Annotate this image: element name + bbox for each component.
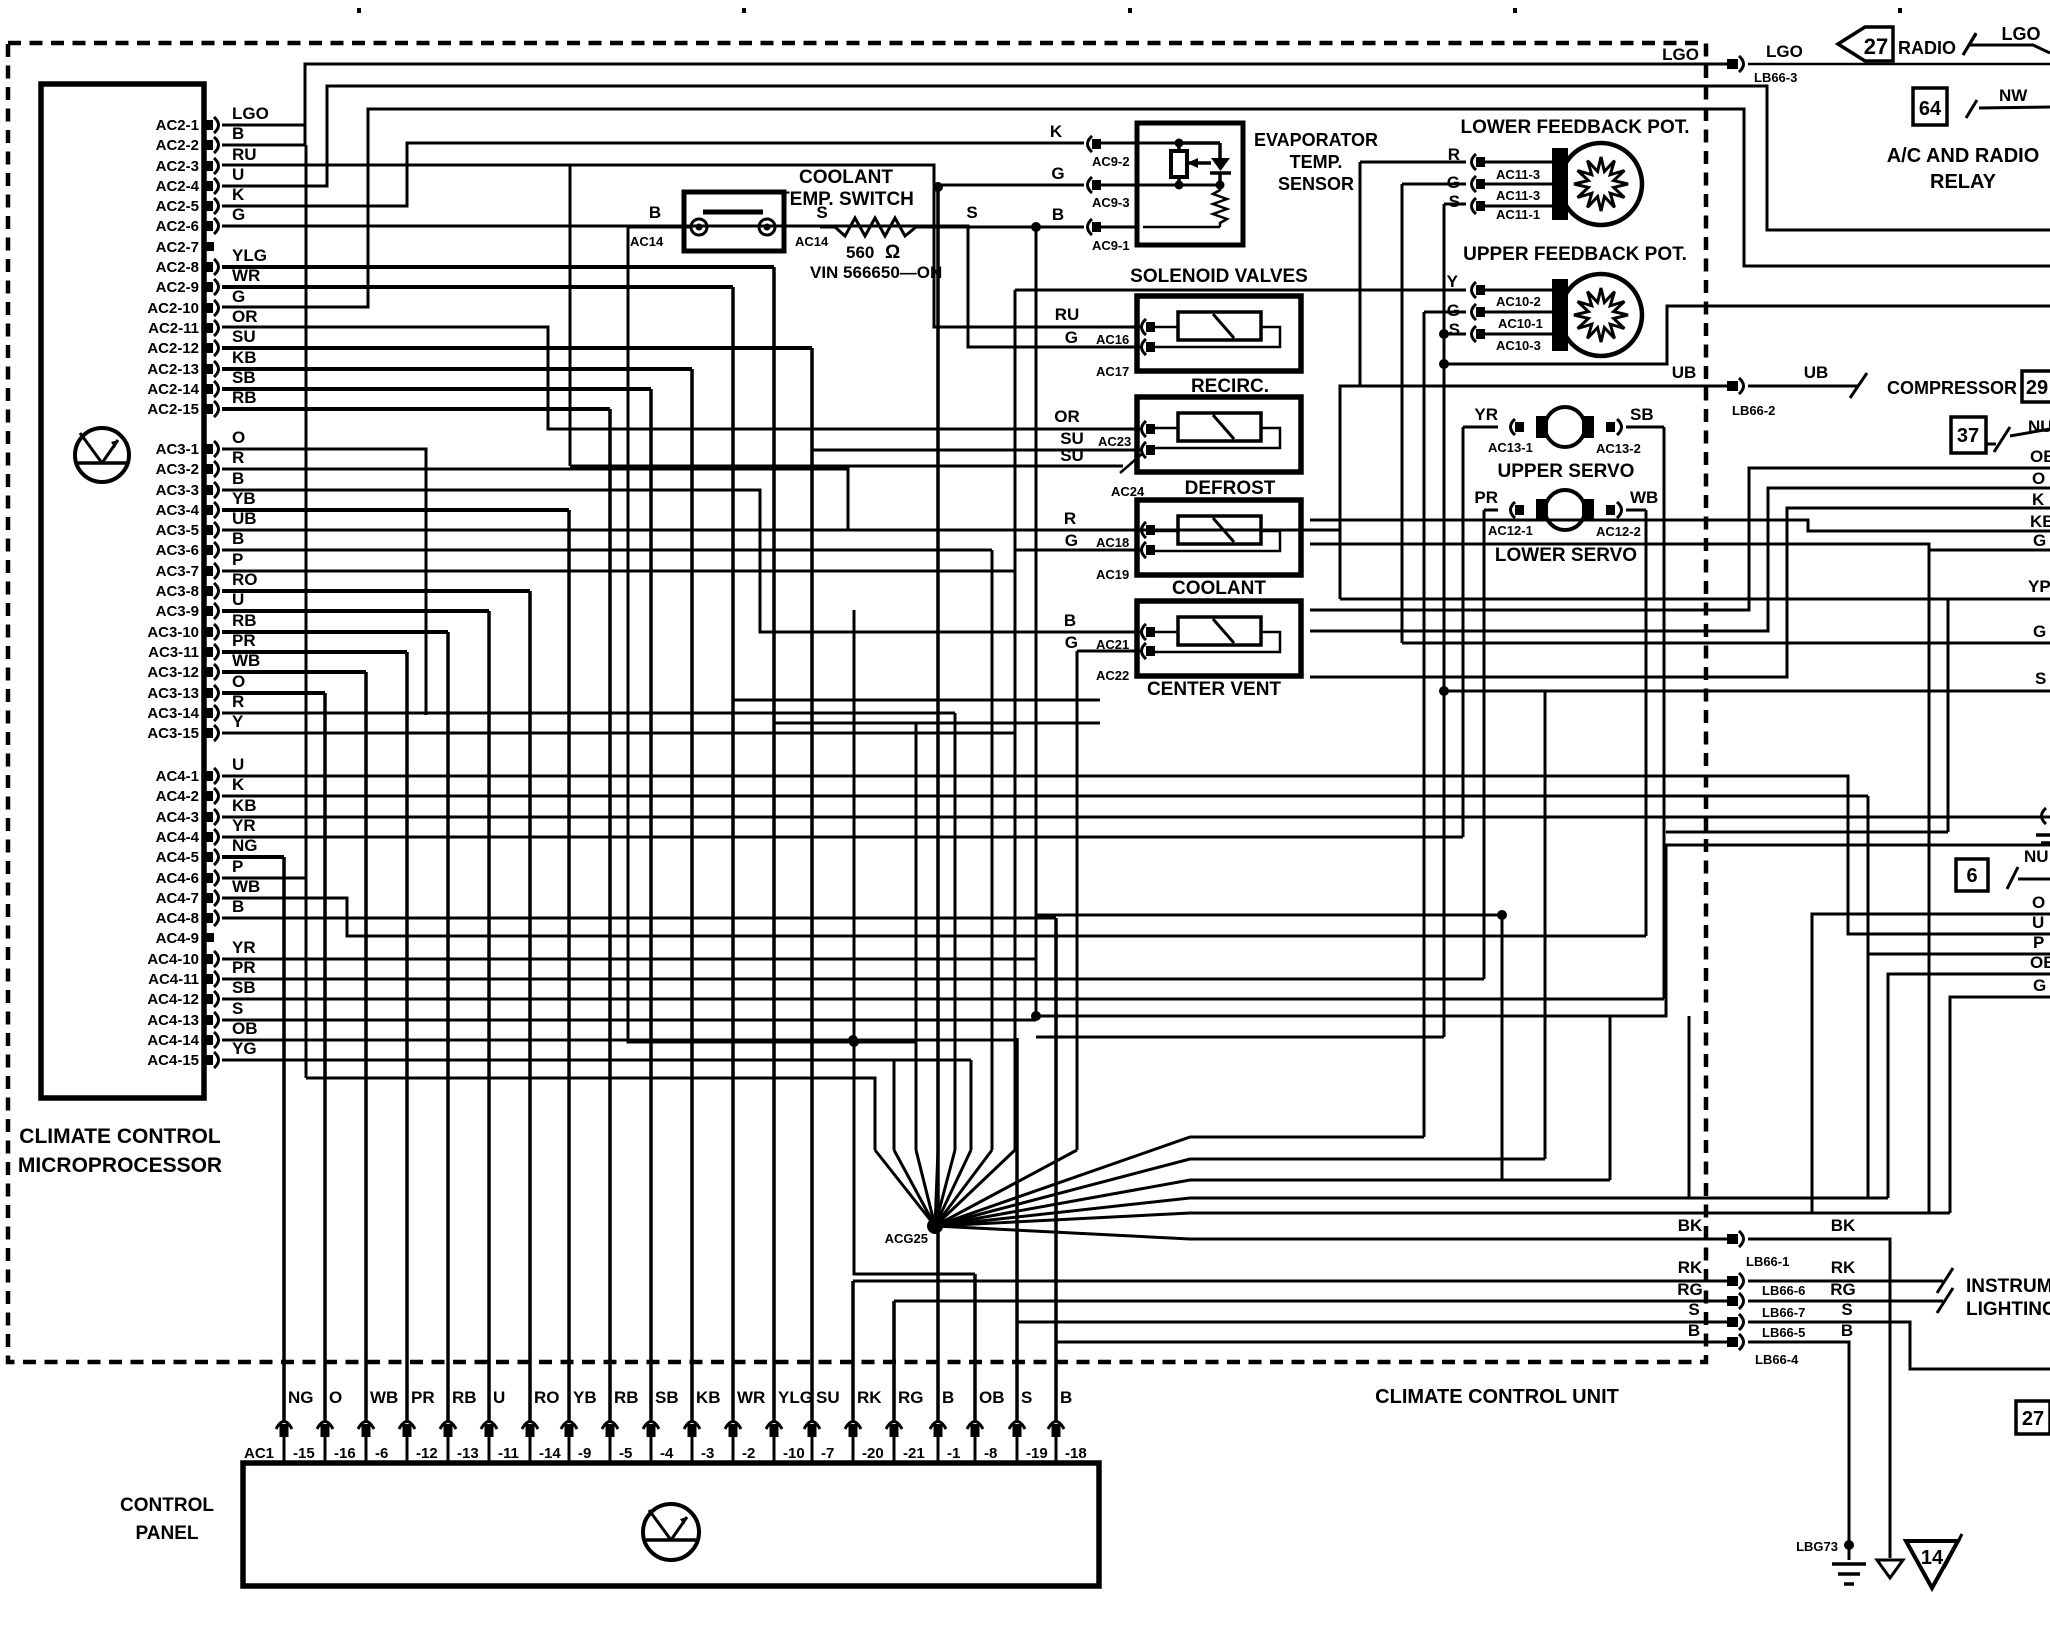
svg-text:SB: SB [1630,405,1654,424]
wire pin to column PR [222,650,407,654]
slash RADIO [1963,33,1976,55]
wire B AC3-6 to ground node [222,549,992,552]
wire fan up to 992 [935,1150,992,1226]
pin AC3-9 U [205,603,219,619]
svg-text:AC14: AC14 [795,234,829,249]
node ACG25 [927,1218,943,1234]
svg-text:-3: -3 [701,1445,714,1462]
svg-text:G: G [1065,328,1078,347]
wire lane to OB edge [1310,468,2050,610]
svg-text:YB: YB [573,1388,597,1407]
svg-text:CLIMATE CONTROL UNIT: CLIMATE CONTROL UNIT [1375,1386,1619,1408]
wire pot S to right edge [1444,306,2050,364]
svg-text:S: S [1021,1388,1032,1407]
box 37 [1951,417,1986,453]
wire lane G edge 643 [1402,642,2050,645]
svg-text:SU: SU [232,327,256,346]
wire RU AC2-3 to AC16 [222,165,1140,327]
svg-text:AC3-2: AC3-2 [156,461,199,478]
panel connector AC1-19 [1009,1422,1025,1438]
svg-text:COOLANT: COOLANT [799,167,893,188]
svg-text:R: R [1064,509,1076,528]
panel connector AC1-7 [804,1422,820,1438]
wire fan up to 938 [935,1150,938,1226]
ground bars right edge [2036,833,2050,837]
svg-text:AC3-15: AC3-15 [147,725,199,742]
wire lane YP edge [1340,598,2050,601]
svg-text:AC11-3: AC11-3 [1496,167,1540,182]
wire fan right lane 1198 [935,1198,1888,1226]
connector AC12-1 PR [1511,502,1525,518]
svg-text:AC3-6: AC3-6 [156,542,199,559]
svg-text:YLG: YLG [778,1388,813,1407]
slash 37 [1994,427,2010,452]
pin AC3-13 O [205,685,219,701]
svg-text:O: O [2032,469,2045,488]
wire pot S upper feed [1444,333,1466,336]
wire column WB to panel pin AC1-6 [364,672,368,1421]
svg-text:WR: WR [737,1388,765,1407]
wire OR AC2-11 to AC23 [222,327,1140,429]
svg-text:G: G [232,287,245,306]
wire column RB to panel pin AC1-5 [608,409,612,1421]
connector AC18 [1142,522,1156,538]
svg-text:AC2-5: AC2-5 [156,198,199,215]
svg-text:DEFROST: DEFROST [1185,478,1276,499]
pin AC4-6 P [205,870,219,886]
wire P AC3-7 [222,570,1015,573]
svg-text:LOWER SERVO: LOWER SERVO [1495,545,1637,566]
wire column KB to panel pin AC1-3 [690,369,694,1421]
wire column YLG to panel pin AC1-10 [772,267,776,1421]
wire column RG to panel pin AC1-21 [892,1301,896,1421]
svg-text:RG: RG [1677,1280,1703,1299]
connector right edge 816 [2042,808,2047,824]
potentiometer lower feedback [1560,143,1642,225]
svg-text:EVAPORATOR: EVAPORATOR [1254,130,1378,150]
wire vertical 1545 [1544,691,1547,1159]
solenoid valve box 3 defrost [1137,500,1301,575]
wire pin to column WB [222,670,366,674]
connector AC16 [1142,319,1156,335]
svg-text:RECIRC.: RECIRC. [1191,376,1269,397]
pin AC2-5 K [205,198,219,214]
svg-text:-5: -5 [619,1445,632,1462]
solenoid valve box 4 coolant [1137,601,1301,676]
svg-text:LBG73: LBG73 [1796,1539,1838,1554]
svg-text:AC10-2: AC10-2 [1496,294,1541,309]
svg-text:B: B [232,529,244,548]
svg-text:S: S [816,203,827,222]
svg-text:AC3-14: AC3-14 [147,705,199,722]
wire B to ground [1748,1342,1849,1560]
connector LB66-1 [1727,1231,1744,1247]
svg-text:UB: UB [1672,363,1697,382]
svg-text:U: U [232,165,244,184]
svg-text:Y: Y [232,712,244,731]
svg-text:AC24: AC24 [1111,484,1145,499]
svg-text:SOLENOID VALVES: SOLENOID VALVES [1130,266,1308,287]
svg-text:YB: YB [232,489,256,508]
wire NW [1966,100,1977,118]
svg-text:AC4-9: AC4-9 [156,930,199,947]
pin AC4-3 KB [205,809,219,825]
svg-text:AC1: AC1 [244,1445,274,1462]
svg-text:B: B [649,203,661,222]
svg-text:K: K [232,775,245,794]
wire fan right lane 1213 [935,1213,1950,1226]
wire YG AC4-15 to ground node [222,1059,971,1062]
svg-text:AC9-3: AC9-3 [1092,195,1130,210]
svg-text:AC3-12: AC3-12 [147,664,199,681]
wire lane to KB edge [1310,520,2050,531]
wire PR servo [1484,509,1498,512]
svg-text:Y: Y [1447,272,1459,291]
connector LB66-4 [1727,1334,1744,1350]
panel connector AC1-21 [886,1422,902,1438]
wire P AC4-6 to ground node [222,877,306,880]
wire vertical 1950 to G edge [1950,997,2050,1213]
wire column OB to panel pin AC1-8 [973,1274,977,1421]
svg-text:WB: WB [370,1388,398,1407]
panel connector AC1-10 [766,1422,782,1438]
pin AC4-10 YR [205,951,219,967]
svg-text:AC2-3: AC2-3 [156,158,199,175]
panel connector AC1-1 [930,1422,946,1438]
svg-text:LB66-3: LB66-3 [1754,70,1797,85]
svg-text:YG: YG [232,1039,257,1058]
wire column 1036 S [1035,227,1038,1018]
wire G to AC9-3 [938,184,1084,187]
svg-text:AC2-6: AC2-6 [156,218,199,235]
wire SB servo [1626,426,1664,429]
wire column RB to panel pin AC1-13 [446,632,450,1421]
label A/C AND RADIO RELAY [1887,145,2040,193]
panel connector AC1-2 [725,1422,741,1438]
wire pin to column B [222,917,1056,920]
box 29 [2022,371,2050,402]
svg-text:AC2-7: AC2-7 [156,239,199,256]
svg-text:YR: YR [232,816,256,835]
wire switch B left [628,227,916,1042]
wire vertical 1948 to 832 lane [1947,599,1950,832]
svg-text:-12: -12 [416,1445,438,1462]
svg-text:AC16: AC16 [1096,332,1129,347]
svg-text:TEMP. SWITCH: TEMP. SWITCH [778,189,914,210]
junction dot 915 [1497,910,1507,920]
connector AC23 [1142,421,1156,437]
svg-text:LB66-6: LB66-6 [1762,1283,1805,1298]
panel connector AC1-4 [643,1422,659,1438]
svg-text:UB: UB [1804,363,1829,382]
wire O AC3-1 [222,449,426,715]
servo motor upper [1536,416,1548,438]
svg-text:AC9-1: AC9-1 [1092,238,1130,253]
pin AC3-5 UB [205,522,219,538]
pin AC4-5 NG [205,849,219,865]
svg-text:AC19: AC19 [1096,567,1129,582]
svg-text:AC4-13: AC4-13 [147,1012,199,1029]
wire R AC3-14 to ground node [222,712,955,715]
servo motor lower [1536,499,1548,521]
wire vertical 1689 [1688,1016,1691,1198]
wire WB servo [1626,509,1646,512]
connector AC10-2 Y [1472,282,1486,298]
svg-text:AC3-8: AC3-8 [156,583,199,600]
wire lane to K edge [1310,508,2050,677]
panel connector AC1-9 [561,1422,577,1438]
wire column B to panel pin AC1-18 [1054,918,1058,1421]
svg-text:NW: NW [1999,86,2028,105]
connector LB66-5 [1727,1314,1744,1330]
svg-text:LB66-1: LB66-1 [1746,1254,1789,1269]
svg-text:YR: YR [232,938,256,957]
svg-text:LGO: LGO [1662,45,1699,64]
wire RK lane [853,1280,1727,1283]
svg-text:AC3-11: AC3-11 [148,644,199,661]
svg-text:O: O [2032,893,2045,912]
svg-text:YP: YP [2028,577,2050,596]
wire pin to column YLG [222,265,774,269]
svg-text:UPPER SERVO: UPPER SERVO [1498,461,1635,482]
wire Y AC3-15 [222,732,1015,735]
svg-text:B: B [1064,611,1076,630]
dashed border climate control unit [8,43,1706,1362]
wire K AC4-2 [222,795,1868,798]
wire vertical 1812 to O edge [1812,914,2050,1213]
pin AC2-4 U [205,178,219,194]
evaporator internals [1143,139,1231,228]
svg-text:SB: SB [232,978,256,997]
svg-text:K: K [1050,122,1063,141]
wire lane S edge 691 [1444,690,2050,693]
svg-text:AC2-15: AC2-15 [147,401,199,418]
pin AC3-15 Y [205,725,219,741]
wire column YB to panel pin AC1-9 [567,510,571,1421]
junction dot LBG73 [1844,1540,1854,1550]
wire LGO to radio [1748,63,2050,66]
pin AC3-3 B [205,482,219,498]
svg-text:CENTER VENT: CENTER VENT [1147,679,1281,700]
svg-text:RO: RO [232,570,258,589]
wire PR AC4-11 [222,978,1484,981]
svg-text:NG: NG [288,1388,314,1407]
svg-text:SU: SU [816,1388,840,1407]
wire YR AC4-4 [222,836,1463,839]
svg-text:AC3-1: AC3-1 [156,441,199,458]
svg-text:Ω: Ω [885,242,900,263]
svg-text:-21: -21 [903,1445,925,1462]
pin AC2-10 G [205,300,219,316]
svg-text:AC3-5: AC3-5 [156,522,199,539]
wire YR AC4-10 [222,958,1036,961]
svg-text:AC10-1: AC10-1 [1498,316,1543,331]
svg-text:AC3-4: AC3-4 [156,502,200,519]
svg-text:AC4-4: AC4-4 [156,829,200,846]
panel connector AC1-11 [481,1422,497,1438]
wire B lane [1056,1341,1727,1344]
svg-text:RU: RU [1055,305,1080,324]
pin AC2-2 B [205,137,219,153]
svg-text:P: P [232,550,243,569]
wire lane to G edge [1310,544,2050,550]
svg-text:PANEL: PANEL [136,1523,199,1544]
svg-text:AC3-13: AC3-13 [147,685,199,702]
svg-text:CLIMATE CONTROL: CLIMATE CONTROL [19,1125,221,1148]
svg-text:37: 37 [1957,425,1979,447]
svg-text:B: B [1841,1321,1853,1340]
svg-text:RB: RB [614,1388,639,1407]
svg-text:AC4-5: AC4-5 [156,849,199,866]
svg-text:KB: KB [232,796,257,815]
connector AC11-1 S [1472,198,1486,214]
potentiometer upper feedback [1560,274,1642,356]
connector AC19 [1142,542,1156,558]
wire K AC2-5 to AC9-2 [222,143,1084,206]
svg-text:G: G [232,205,245,224]
pin AC3-6 B [205,542,219,558]
svg-text:-20: -20 [862,1445,884,1462]
svg-text:AC3-3: AC3-3 [156,482,199,499]
pin AC4-8 B [205,910,219,926]
wire vertical 306 [305,145,308,1078]
svg-text:-7: -7 [821,1445,834,1462]
svg-text:G: G [1065,531,1078,550]
wire RG to slash [1748,1300,1943,1303]
svg-text:A/C AND RADIO: A/C AND RADIO [1887,145,2040,167]
svg-text:UPPER FEEDBACK POT.: UPPER FEEDBACK POT. [1463,244,1687,265]
wire lane 723 [774,722,1100,725]
svg-text:COOLANT: COOLANT [1172,578,1266,599]
svg-text:O: O [329,1388,342,1407]
climate control microprocessor box U1 [41,84,204,1098]
svg-text:27: 27 [2022,1408,2044,1430]
connector AC24 [1142,442,1156,458]
svg-text:AC2-9: AC2-9 [156,279,199,296]
wire UB AC3-5 to compressor [222,386,1727,530]
pin AC2-1 LGO [205,117,219,133]
wire pin to column KB [222,367,692,371]
svg-text:BK: BK [1831,1216,1856,1235]
svg-text:KB: KB [2030,512,2050,531]
svg-text:-2: -2 [742,1445,755,1462]
svg-text:ACG25: ACG25 [885,1231,928,1246]
panel connector AC1-8 [967,1422,983,1438]
svg-text:OR: OR [1054,407,1080,426]
svg-text:-15: -15 [293,1445,315,1462]
wire column RO to panel pin AC1-14 [528,591,532,1421]
wire pin to column RB [222,630,448,634]
svg-text:VIN 566650—ON: VIN 566650—ON [810,263,942,282]
svg-text:OB: OB [979,1388,1005,1407]
svg-text:RK: RK [1678,1258,1703,1277]
slash 6 [2007,867,2018,889]
svg-text:BK: BK [1678,1216,1703,1235]
svg-text:WB: WB [232,877,260,896]
svg-text:OR: OR [232,307,258,326]
svg-text:LGO: LGO [1766,42,1803,61]
svg-text:AC4-3: AC4-3 [156,809,199,826]
svg-text:U: U [2032,913,2044,932]
wire B AC2-2 [222,144,305,147]
panel connector AC1-12 [399,1422,415,1438]
wire column 1015 pot Y [1014,290,1017,1150]
wire vertical 1610 [1609,1016,1612,1180]
svg-text:B: B [232,897,244,916]
svg-text:B: B [942,1388,954,1407]
connector AC13-2 SB [1606,419,1622,435]
svg-text:KB: KB [696,1388,721,1407]
svg-text:OB: OB [2030,953,2050,972]
svg-text:29: 29 [2026,377,2048,399]
svg-text:SB: SB [655,1388,679,1407]
wire lane 700 [733,699,1100,702]
pin AC3-4 YB [205,502,219,518]
svg-text:PR: PR [232,958,256,977]
svg-text:AC4-11: AC4-11 [148,971,199,988]
svg-text:-6: -6 [375,1445,388,1462]
wire column U to panel pin AC1-11 [487,611,491,1421]
svg-text:LB66-4: LB66-4 [1755,1352,1799,1367]
wire column B to panel pin AC1-1 [936,185,940,1421]
connector LB66-3 [1727,56,1744,72]
wire SB AC4-12 [222,998,1664,1001]
wire SU to AC23 [812,449,1140,452]
junction dot pot S lower [1439,359,1449,369]
svg-text:O: O [232,672,245,691]
svg-text:AC22: AC22 [1096,668,1129,683]
svg-text:-14: -14 [539,1445,561,1462]
connector AC11-3 G [1472,176,1486,192]
svg-text:-16: -16 [334,1445,356,1462]
wire fan up to 1015 [935,1150,1015,1226]
pin AC2-8 YLG [205,259,219,275]
wire lane 1078 to fan [306,1078,875,1150]
wire pot Y feed [1015,289,1466,292]
panel connector AC1-15 [276,1422,292,1438]
svg-text:KB: KB [232,348,257,367]
wire fan up to 894 [894,1150,935,1226]
pin AC3-1 O [205,441,219,457]
connector AC9-3 [1088,177,1102,193]
wire pot G upper feed [1424,311,1466,314]
wire U AC2-4 to relay [222,86,2050,230]
pin AC2-9 WR [205,279,219,295]
solenoid valve box 2 recirc [1137,397,1301,472]
wire vertical 1444 [1443,204,1446,1037]
pin AC3-8 RO [205,583,219,599]
svg-text:NG: NG [232,836,258,855]
control panel box [243,1463,1099,1586]
svg-text:-18: -18 [1065,1445,1087,1462]
wire vertical 1888 to OB edge [1888,974,2050,1198]
wire WB AC4-7 [222,898,1646,936]
panel connector AC1-6 [358,1422,374,1438]
wire fan up to 971 [935,1150,971,1226]
wire fan up to 875 [875,1150,935,1226]
wire OB AC4-14 [222,1039,1017,1042]
svg-text:AC18: AC18 [1096,535,1129,550]
wire vertical 1424 pot G upper [1423,312,1426,1137]
svg-text:AC3-9: AC3-9 [156,603,199,620]
label evaporator temp sensor [1254,130,1378,194]
wire 1037 lane [1036,1036,1444,1039]
slash RG [1937,1288,1953,1313]
svg-text:LB66-5: LB66-5 [1762,1325,1805,1340]
wire RK to slash [1748,1280,1943,1283]
wire S AC4-13 [222,1019,1036,1022]
panel connector AC1-3 [684,1422,700,1438]
